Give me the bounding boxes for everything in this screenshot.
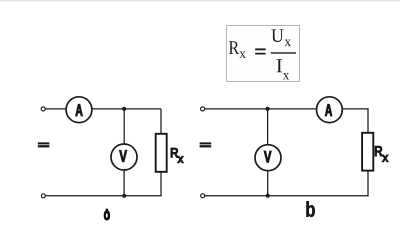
label a bbox=[104, 209, 110, 221]
letter V of voltmeter V2 bbox=[264, 151, 271, 163]
terminal bottom-left a bbox=[41, 194, 45, 198]
formula R subscript x bbox=[239, 51, 245, 57]
junction top b bbox=[266, 107, 270, 111]
fraction bar bbox=[271, 52, 296, 53]
formula U subscript x bbox=[285, 40, 291, 47]
terminal top-left a bbox=[41, 107, 45, 111]
subscript x of Rx label (b) bbox=[382, 155, 389, 162]
formula I subscript x bbox=[283, 73, 289, 79]
letter A of ammeter A1 bbox=[76, 104, 83, 116]
junction bottom a bbox=[122, 194, 126, 198]
junction bottom b bbox=[266, 194, 270, 198]
formula U bbox=[271, 29, 283, 42]
voltmeter V2 circle bbox=[255, 145, 281, 171]
label b bbox=[306, 201, 314, 217]
voltmeter V1 circle bbox=[111, 144, 137, 170]
wire right b: Rx to bottom bbox=[367, 171, 369, 197]
formula I bbox=[277, 59, 282, 72]
ammeter A1 circle bbox=[66, 97, 92, 123]
wire bottom b bbox=[205, 195, 369, 197]
wire right a: down to Rx bbox=[160, 109, 162, 134]
resistor Rx (b) body bbox=[362, 133, 373, 171]
formula R bbox=[229, 41, 239, 54]
wire top a: terminal to ammeter bbox=[45, 108, 66, 110]
letter R of Rx label (a) bbox=[171, 148, 178, 158]
wire middle b: voltmeter to bottom bbox=[267, 171, 269, 196]
DC source symbol a bbox=[38, 142, 50, 147]
junction top a bbox=[122, 107, 126, 111]
letter V of voltmeter V1 bbox=[119, 150, 127, 162]
wire top b: ammeter to right corner bbox=[342, 108, 368, 110]
letter R of Rx label (b) bbox=[375, 146, 383, 156]
resistor Rx (a) body bbox=[156, 134, 167, 172]
wire bottom a bbox=[46, 195, 162, 197]
wire right a: Rx to bottom bbox=[160, 172, 162, 197]
terminal top-left b bbox=[201, 107, 205, 111]
DC source symbol b bbox=[200, 142, 212, 147]
equals sign bbox=[255, 48, 265, 54]
ammeter A2 circle bbox=[317, 97, 343, 123]
wire top b: terminal to ammeter bbox=[205, 108, 316, 110]
terminal bottom-left b bbox=[201, 194, 205, 198]
formula box frame bbox=[227, 26, 300, 82]
letter A of ammeter A2 bbox=[325, 104, 332, 116]
subscript x of Rx label (a) bbox=[177, 156, 183, 163]
wire middle a: junction to voltmeter bbox=[123, 109, 125, 144]
wire top a: ammeter to right corner bbox=[92, 108, 161, 110]
wire middle a: voltmeter to bottom bbox=[123, 170, 125, 196]
wire middle b: junction to voltmeter bbox=[267, 109, 269, 145]
wire right b: down to Rx bbox=[367, 109, 369, 133]
